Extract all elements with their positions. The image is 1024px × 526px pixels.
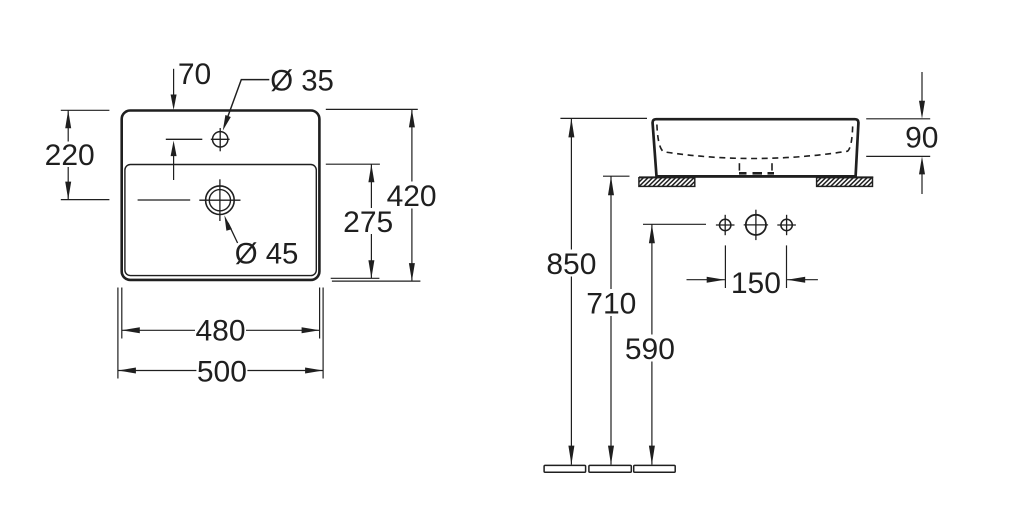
svg-text:590: 590 [625,333,675,366]
svg-text:Ø 35: Ø 35 [270,64,334,97]
svg-text:150: 150 [731,267,781,300]
svg-text:70: 70 [178,58,211,91]
svg-text:500: 500 [197,355,247,388]
svg-text:480: 480 [195,314,245,347]
svg-text:420: 420 [387,180,437,213]
svg-text:Ø 45: Ø 45 [235,238,299,271]
svg-text:90: 90 [905,122,938,155]
svg-text:275: 275 [343,206,393,239]
svg-text:220: 220 [45,139,95,172]
svg-text:710: 710 [586,288,636,321]
svg-text:850: 850 [546,248,596,281]
